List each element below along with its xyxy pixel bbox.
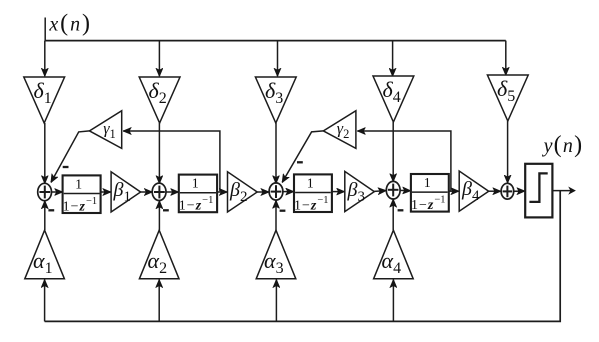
- wire integrator2 to beta2: [217, 191, 227, 193]
- wire integrator4 output tap to gamma2 input: [357, 131, 451, 191]
- amplifier alpha1: [25, 230, 65, 279]
- wire drop to delta3: [277, 41, 279, 77]
- wire delta4 to summer S4: [392, 122, 394, 182]
- amplifier beta2: [228, 172, 258, 212]
- svg-text:y(n): y(n): [542, 132, 584, 158]
- svg-text:β4: β4: [461, 178, 480, 204]
- wire drop to delta4: [392, 41, 394, 77]
- wire delta3 to summer S3: [275, 123, 277, 184]
- amplifier beta4: [459, 171, 489, 211]
- wire delta5 to summer S5: [507, 121, 509, 183]
- svg-text:δ3: δ3: [265, 78, 283, 107]
- minus sign at S1 alpha input: [48, 209, 54, 211]
- summer S5: [501, 183, 514, 199]
- quantizer Q box: [525, 164, 552, 218]
- svg-text:1: 1: [75, 177, 82, 192]
- wire integrator2 output tap to gamma1 input: [123, 131, 220, 191]
- wire alpha3 to summer S3: [275, 200, 277, 230]
- svg-text:δ2: δ2: [149, 78, 167, 107]
- minus sign at S3 gamma input: [297, 161, 303, 163]
- wire feedback riser to alpha3: [275, 280, 277, 322]
- minus sign at S1 gamma input: [63, 166, 69, 168]
- node x(n) input stub: [44, 18, 46, 41]
- wire delta1 to summer S1: [44, 123, 46, 184]
- wire feedback riser to alpha2: [158, 280, 160, 322]
- svg-text:1: 1: [424, 176, 431, 191]
- svg-text:1: 1: [307, 176, 314, 191]
- amplifier delta2: [139, 77, 180, 123]
- minus sign at S3 alpha input: [280, 210, 286, 212]
- wire gamma2 output to summer S3: [282, 131, 323, 183]
- summer S4: [386, 181, 400, 199]
- wire feedback riser to alpha1: [44, 280, 46, 322]
- quantizer step symbol: [529, 173, 547, 202]
- wire beta4 to summer S5: [489, 190, 501, 192]
- svg-text:1−z−1: 1−z−1: [63, 196, 98, 215]
- integrator I4 box: [411, 174, 449, 212]
- wire beta3 to summer S4: [374, 190, 386, 193]
- wire integrator4 to beta4: [449, 190, 459, 192]
- wire drop to delta1: [44, 41, 46, 77]
- amplifier gamma2: [323, 111, 356, 149]
- svg-text:α3: α3: [264, 248, 284, 277]
- wire gamma1 output to summer S1: [51, 131, 90, 183]
- svg-text:γ2: γ2: [337, 121, 350, 141]
- wire alpha1 to summer S1: [44, 201, 46, 230]
- svg-text:δ1: δ1: [34, 78, 52, 107]
- svg-text:x(n): x(n): [48, 11, 92, 37]
- wire beta1 to summer S2: [141, 191, 153, 193]
- wire drop to delta2: [158, 41, 160, 77]
- wire alpha2 to summer S2: [158, 201, 160, 230]
- wire S1 to integrator1: [52, 191, 63, 193]
- wire feedback riser to alpha4: [392, 280, 394, 322]
- svg-text:1−z−1: 1−z−1: [179, 195, 214, 214]
- integrator I2 box: [179, 175, 217, 213]
- svg-text:α2: α2: [148, 248, 168, 277]
- amplifier alpha3: [256, 230, 296, 279]
- amplifier alpha2: [139, 230, 179, 279]
- svg-text:δ4: δ4: [383, 77, 401, 106]
- summer S3: [269, 183, 283, 200]
- svg-text:1: 1: [192, 177, 199, 192]
- svg-text:α1: α1: [33, 248, 53, 277]
- wire quantizer output: [552, 190, 572, 192]
- wire delta2 to summer S2: [158, 123, 160, 184]
- amplifier alpha4: [374, 230, 414, 279]
- integrator I1 box: [63, 175, 101, 213]
- amplifier beta1: [111, 172, 141, 212]
- wire beta2 to summer S3: [257, 191, 269, 193]
- wire drop to delta5: [505, 41, 507, 76]
- wire S5 to quantizer: [514, 190, 525, 192]
- wire S4 to integrator4: [400, 189, 411, 191]
- svg-text:1−z−1: 1−z−1: [294, 195, 329, 214]
- amplifier delta5: [487, 75, 528, 121]
- integrator I3 box: [294, 174, 332, 212]
- wire S2 to integrator2: [166, 191, 178, 193]
- svg-text:γ1: γ1: [103, 121, 116, 141]
- amplifier delta4: [373, 76, 414, 122]
- summer S1: [38, 183, 52, 200]
- amplifier delta1: [24, 77, 65, 123]
- amplifier beta3: [345, 171, 375, 211]
- svg-text:δ5: δ5: [497, 76, 515, 105]
- wire integrator1 to beta1: [101, 191, 111, 193]
- minus sign at S2 alpha input: [163, 209, 169, 211]
- wire top distribution line: [45, 40, 506, 42]
- svg-text:1−z−1: 1−z−1: [411, 194, 446, 213]
- wire output feedback down: [45, 191, 561, 322]
- wire alpha4 to summer S4: [392, 199, 394, 230]
- minus sign at S4 alpha input: [398, 209, 404, 211]
- amplifier gamma1: [90, 111, 122, 149]
- summer S2: [152, 183, 166, 200]
- wire integrator3 to beta3: [332, 191, 345, 193]
- wire S3 to integrator3: [283, 191, 294, 193]
- amplifier delta3: [255, 77, 296, 123]
- svg-text:α4: α4: [382, 248, 402, 277]
